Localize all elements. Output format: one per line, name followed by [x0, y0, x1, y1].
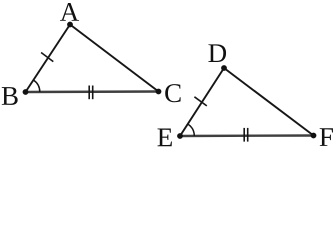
tick mark on DE: [194, 97, 206, 106]
label A: [60, 3, 79, 21]
vertex dot A: [67, 22, 73, 28]
vertex dot B: [23, 89, 29, 95]
side AC: [70, 25, 159, 92]
side DF: [224, 68, 314, 136]
side EF: [180, 134, 314, 137]
vertex dot D: [221, 65, 227, 71]
vertex dot F: [311, 133, 317, 139]
vertex dot C: [156, 89, 162, 95]
double tick on BC: [89, 86, 93, 100]
label D: [208, 44, 226, 62]
label C: [165, 84, 180, 102]
tick mark on AB: [41, 53, 53, 62]
label B: [2, 87, 18, 105]
label F: [320, 128, 333, 146]
double tick on EF: [244, 128, 248, 142]
vertex dot E: [177, 133, 183, 139]
angle arc at E: [188, 124, 195, 136]
angle arc at B: [33, 80, 39, 92]
side AB: [26, 25, 71, 93]
side DE: [180, 68, 224, 136]
side BC: [26, 90, 159, 93]
label E: [158, 129, 172, 147]
